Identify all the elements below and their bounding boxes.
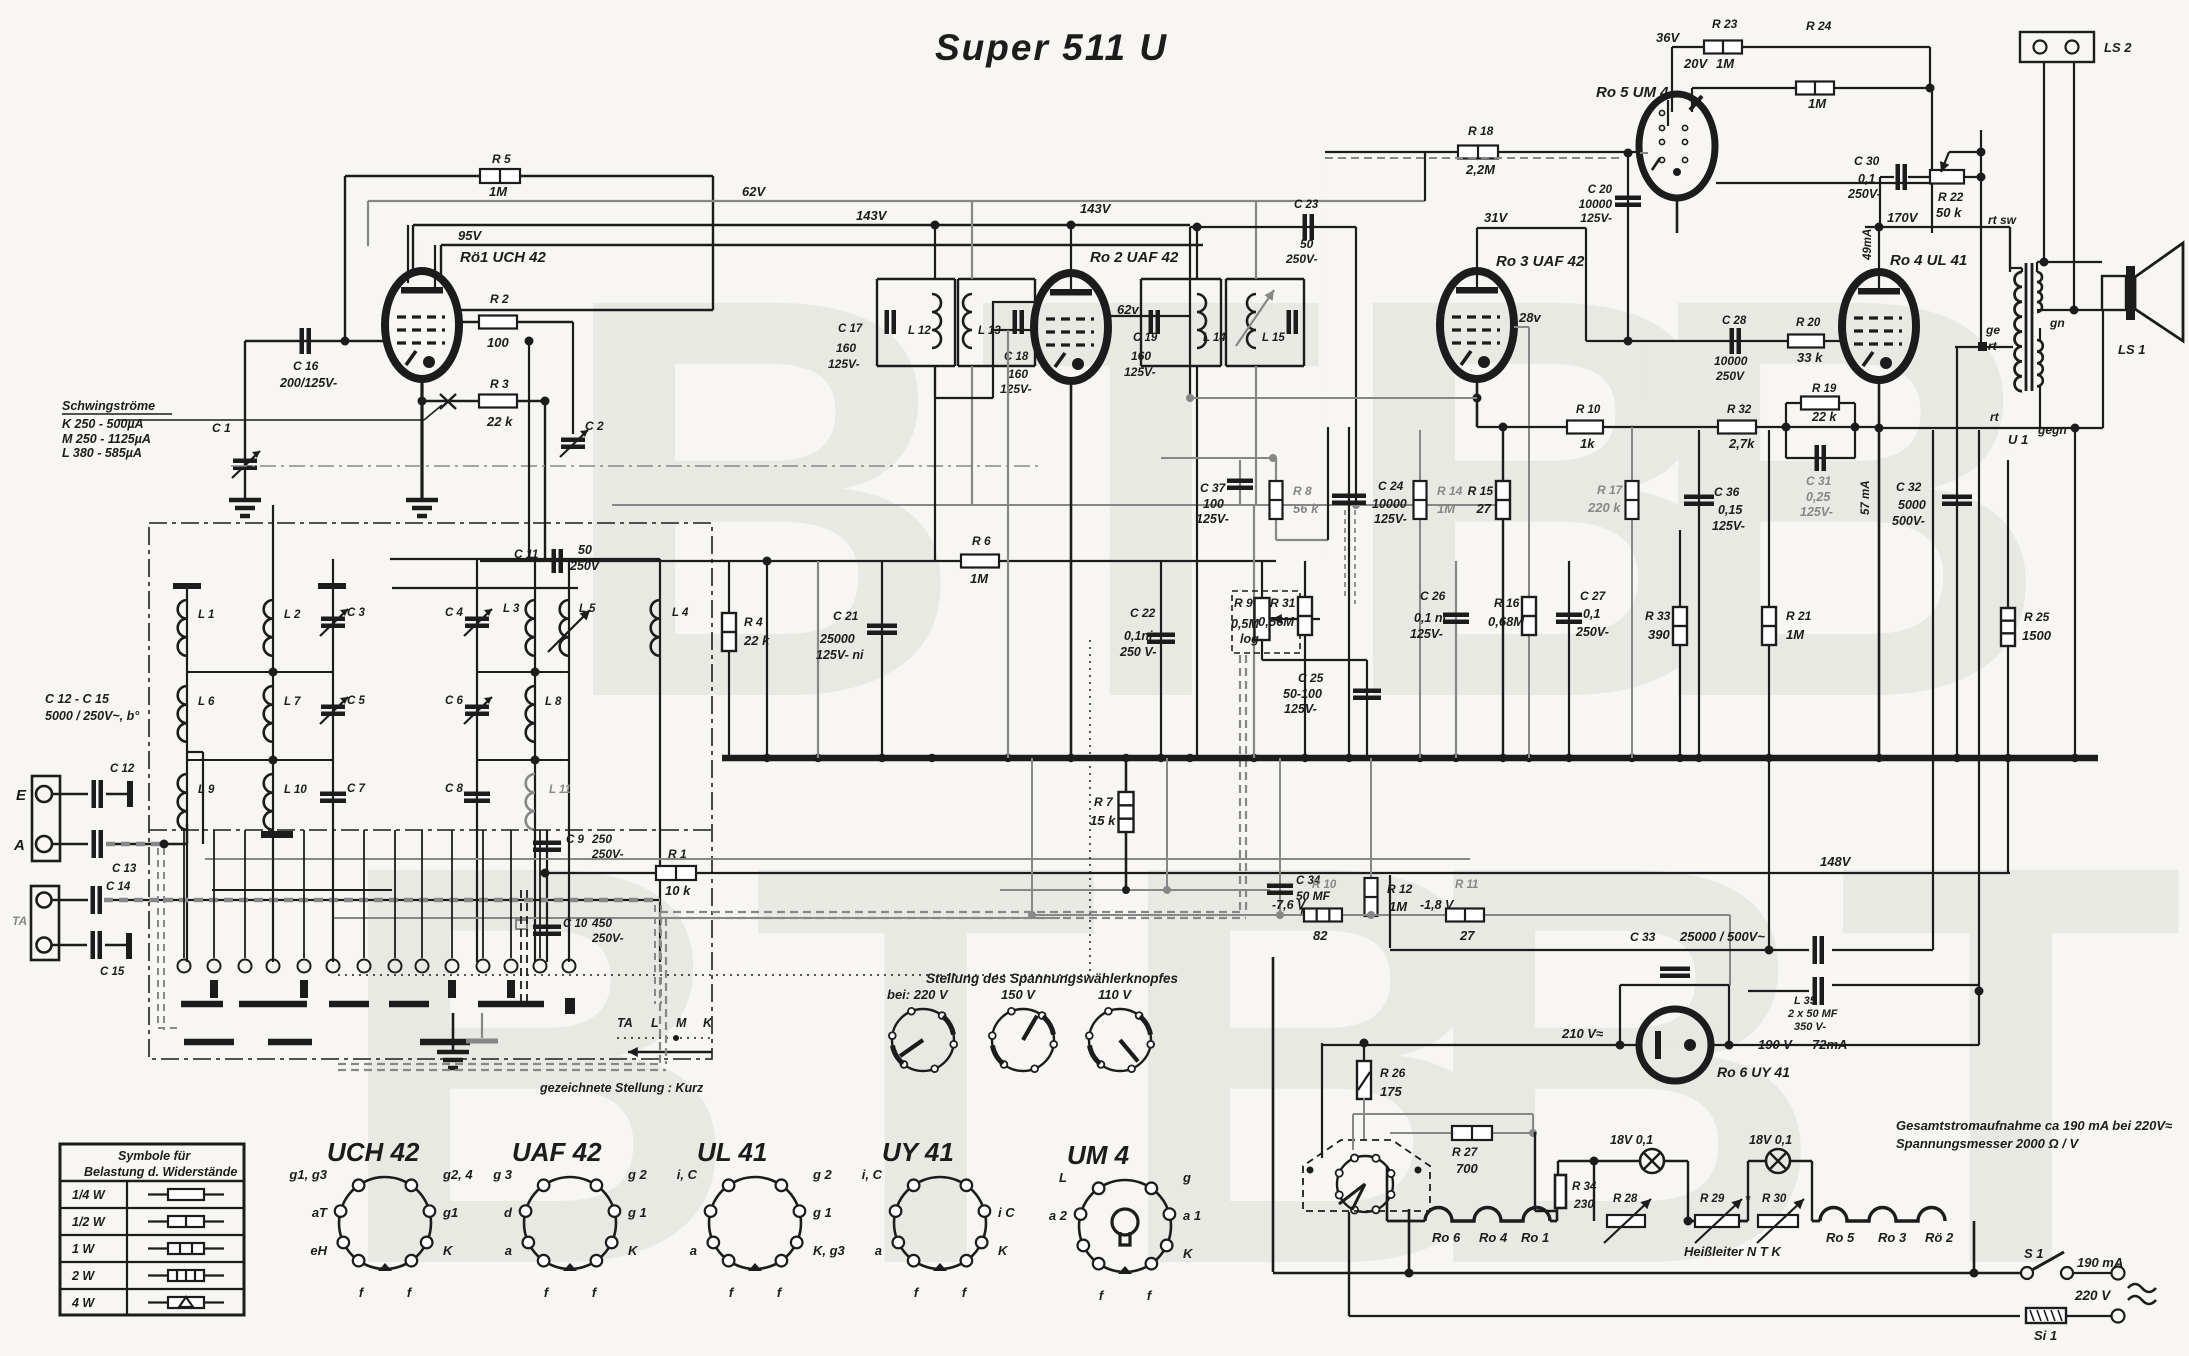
svg-text:Ro 3: Ro 3 bbox=[1878, 1230, 1907, 1245]
svg-text:R 15: R 15 bbox=[1468, 484, 1494, 498]
svg-text:2,7k: 2,7k bbox=[1728, 436, 1755, 451]
svg-text:10 k: 10 k bbox=[665, 883, 691, 898]
svg-text:18V 0,1: 18V 0,1 bbox=[1749, 1133, 1792, 1147]
svg-text:L 3: L 3 bbox=[503, 603, 520, 615]
svg-text:R 3: R 3 bbox=[490, 377, 509, 391]
svg-text:log: log bbox=[1240, 632, 1259, 646]
svg-text:10000: 10000 bbox=[1372, 497, 1407, 511]
svg-text:TA: TA bbox=[12, 914, 27, 928]
svg-text:Rö 2: Rö 2 bbox=[1925, 1230, 1954, 1245]
svg-text:125V-: 125V- bbox=[1000, 382, 1032, 396]
svg-text:L 10: L 10 bbox=[284, 784, 307, 796]
svg-text:K: K bbox=[998, 1243, 1009, 1258]
svg-text:R 28: R 28 bbox=[1613, 1193, 1638, 1205]
svg-text:5000: 5000 bbox=[1898, 498, 1926, 512]
svg-text:25000 / 500V~: 25000 / 500V~ bbox=[1679, 929, 1765, 944]
svg-text:C 12 - C 15: C 12 - C 15 bbox=[45, 692, 110, 706]
svg-text:82: 82 bbox=[1313, 928, 1328, 943]
svg-text:R 11: R 11 bbox=[1455, 879, 1478, 891]
svg-text:R 24: R 24 bbox=[1806, 19, 1832, 33]
svg-text:0,5M: 0,5M bbox=[1231, 617, 1259, 631]
svg-text:R 27: R 27 bbox=[1452, 1145, 1479, 1159]
svg-text:10000: 10000 bbox=[1579, 197, 1613, 211]
svg-text:Stellung des Spannungswähler: Stellung des Spannungswählerknopfes bbox=[926, 971, 1179, 986]
svg-text:50 k: 50 k bbox=[1936, 205, 1962, 220]
svg-text:Super 511 U: Super 511 U bbox=[935, 27, 1168, 68]
svg-text:160: 160 bbox=[836, 341, 856, 355]
svg-text:g 1: g 1 bbox=[627, 1205, 647, 1220]
svg-text:31V: 31V bbox=[1484, 210, 1508, 225]
svg-text:100: 100 bbox=[487, 335, 509, 350]
svg-text:R 23: R 23 bbox=[1712, 17, 1738, 31]
svg-text:125V-: 125V- bbox=[828, 357, 860, 371]
svg-text:C 14: C 14 bbox=[106, 881, 131, 893]
svg-text:UY 41: UY 41 bbox=[882, 1137, 954, 1167]
svg-text:125V-: 125V- bbox=[1800, 505, 1833, 519]
svg-text:i C: i C bbox=[998, 1205, 1015, 1220]
svg-text:UL 41: UL 41 bbox=[697, 1137, 767, 1167]
svg-text:125V-: 125V- bbox=[1374, 512, 1407, 526]
svg-text:L 7: L 7 bbox=[284, 696, 301, 708]
svg-text:Belastung d. Widerstände: Belastung d. Widerstände bbox=[84, 1165, 237, 1179]
svg-text:2 W: 2 W bbox=[71, 1269, 95, 1283]
svg-text:27: 27 bbox=[1476, 501, 1492, 516]
svg-text:R 29: R 29 bbox=[1700, 1193, 1725, 1205]
svg-text:C 36: C 36 bbox=[1714, 485, 1740, 499]
svg-text:125V-: 125V- bbox=[1712, 519, 1745, 533]
svg-text:E: E bbox=[16, 787, 27, 804]
svg-text:1M: 1M bbox=[970, 571, 989, 586]
svg-text:1M: 1M bbox=[1716, 56, 1735, 71]
svg-text:0,25: 0,25 bbox=[1806, 490, 1831, 504]
svg-text:C 22: C 22 bbox=[1130, 606, 1156, 620]
svg-text:143V: 143V bbox=[1080, 201, 1112, 216]
svg-text:0,1: 0,1 bbox=[1583, 607, 1600, 621]
svg-text:C 12: C 12 bbox=[110, 763, 135, 775]
svg-text:250V-: 250V- bbox=[1575, 625, 1609, 639]
svg-text:C 10: C 10 bbox=[563, 918, 588, 930]
svg-text:C 33: C 33 bbox=[1630, 930, 1656, 944]
svg-text:C 21: C 21 bbox=[833, 609, 859, 623]
svg-text:148V: 148V bbox=[1820, 854, 1852, 869]
svg-text:18V 0,1: 18V 0,1 bbox=[1610, 1133, 1653, 1147]
svg-text:gn: gn bbox=[2049, 316, 2065, 330]
svg-text:250: 250 bbox=[591, 832, 612, 846]
svg-text:rt: rt bbox=[1988, 339, 1998, 353]
svg-text:C 13: C 13 bbox=[112, 863, 137, 875]
svg-text:a: a bbox=[875, 1243, 882, 1258]
svg-text:0,15: 0,15 bbox=[1718, 503, 1743, 517]
svg-text:230: 230 bbox=[1573, 1197, 1594, 1211]
svg-text:C 5: C 5 bbox=[347, 695, 366, 707]
svg-text:L 1: L 1 bbox=[198, 609, 214, 621]
svg-text:125V-: 125V- bbox=[1196, 512, 1229, 526]
svg-text:50-100: 50-100 bbox=[1283, 687, 1322, 701]
svg-text:160: 160 bbox=[1008, 367, 1028, 381]
svg-text:UM 4: UM 4 bbox=[1067, 1140, 1130, 1170]
svg-text:g 3: g 3 bbox=[492, 1167, 513, 1182]
svg-text:LS 1: LS 1 bbox=[2118, 342, 2145, 357]
svg-text:R 6: R 6 bbox=[972, 534, 991, 548]
svg-text:4 W: 4 W bbox=[71, 1296, 95, 1310]
svg-text:20V: 20V bbox=[1683, 56, 1708, 71]
svg-text:R 4: R 4 bbox=[744, 615, 763, 629]
svg-text:C 23: C 23 bbox=[1294, 199, 1319, 211]
svg-text:125V-: 125V- bbox=[1284, 702, 1317, 716]
svg-text:Spannungsmesser 2000 Ω / V: Spannungsmesser 2000 Ω / V bbox=[1896, 1136, 2079, 1151]
svg-text:27: 27 bbox=[1459, 928, 1475, 943]
svg-text:Ro 6 UY 41: Ro 6 UY 41 bbox=[1717, 1064, 1790, 1080]
svg-text:C 28: C 28 bbox=[1722, 315, 1747, 327]
svg-text:g 2: g 2 bbox=[627, 1167, 648, 1182]
svg-text:R 14: R 14 bbox=[1437, 484, 1463, 498]
svg-text:R 26: R 26 bbox=[1380, 1066, 1406, 1080]
svg-text:R 10: R 10 bbox=[1576, 404, 1601, 416]
svg-text:C 27: C 27 bbox=[1580, 589, 1607, 603]
svg-text:C 6: C 6 bbox=[445, 695, 464, 707]
svg-text:gegn: gegn bbox=[2037, 423, 2067, 437]
svg-text:C 8: C 8 bbox=[445, 783, 464, 795]
svg-text:BTB: BTB bbox=[555, 179, 1756, 816]
svg-text:110 V: 110 V bbox=[1098, 987, 1132, 1002]
svg-text:R 30: R 30 bbox=[1762, 1193, 1787, 1205]
svg-text:M 250 - 1125µA: M 250 - 1125µA bbox=[62, 432, 151, 446]
svg-text:BT: BT bbox=[1415, 746, 2189, 1356]
svg-text:g 1: g 1 bbox=[812, 1205, 832, 1220]
svg-text:gezeichnete Stellung : Kurz: gezeichnete Stellung : Kurz bbox=[539, 1081, 704, 1095]
svg-text:190 V: 190 V bbox=[1758, 1037, 1793, 1052]
svg-text:L 4: L 4 bbox=[672, 607, 689, 619]
svg-text:72mA: 72mA bbox=[1812, 1037, 1847, 1052]
svg-text:bei: 220 V: bei: 220 V bbox=[887, 987, 949, 1002]
svg-text:UAF 42: UAF 42 bbox=[512, 1137, 602, 1167]
svg-text:C 20: C 20 bbox=[1588, 184, 1613, 196]
svg-text:450: 450 bbox=[591, 916, 612, 930]
svg-text:1M: 1M bbox=[1808, 96, 1827, 111]
svg-text:g: g bbox=[1182, 1170, 1191, 1185]
svg-text:49mA: 49mA bbox=[1862, 229, 1874, 261]
svg-text:350 V-: 350 V- bbox=[1794, 1021, 1826, 1033]
svg-text:150 V: 150 V bbox=[1001, 987, 1036, 1002]
svg-text:R 17: R 17 bbox=[1597, 483, 1624, 497]
svg-text:R 7: R 7 bbox=[1094, 795, 1114, 809]
svg-text:U 1: U 1 bbox=[2008, 432, 2028, 447]
svg-text:160: 160 bbox=[1131, 349, 1151, 363]
svg-text:L 35: L 35 bbox=[1794, 995, 1817, 1007]
svg-text:L: L bbox=[651, 1016, 659, 1030]
svg-text:125V- ni: 125V- ni bbox=[816, 648, 864, 662]
svg-text:1 W: 1 W bbox=[72, 1242, 95, 1256]
svg-text:Heißleiter N T K: Heißleiter N T K bbox=[1684, 1244, 1782, 1259]
svg-text:R 19: R 19 bbox=[1812, 383, 1837, 395]
svg-text:1/2 W: 1/2 W bbox=[72, 1215, 106, 1229]
svg-text:50: 50 bbox=[1300, 237, 1314, 251]
svg-text:R 21: R 21 bbox=[1786, 609, 1812, 623]
svg-text:22 k: 22 k bbox=[486, 414, 513, 429]
svg-text:LS 2: LS 2 bbox=[2104, 40, 2132, 55]
svg-text:1M: 1M bbox=[1437, 501, 1456, 516]
svg-text:a: a bbox=[505, 1243, 512, 1258]
svg-text:22 k: 22 k bbox=[1811, 410, 1837, 424]
svg-text:C 16: C 16 bbox=[293, 359, 319, 373]
svg-text:Rö1 UCH 42: Rö1 UCH 42 bbox=[460, 249, 547, 266]
svg-text:2 x 50 MF: 2 x 50 MF bbox=[1787, 1008, 1838, 1020]
svg-text:g 2: g 2 bbox=[812, 1167, 833, 1182]
svg-text:S 1: S 1 bbox=[2024, 1246, 2044, 1261]
svg-text:rt: rt bbox=[1990, 410, 2000, 424]
svg-text:aT: aT bbox=[312, 1205, 328, 1220]
svg-text:L 380 - 585µA: L 380 - 585µA bbox=[62, 446, 142, 460]
svg-text:C 25: C 25 bbox=[1298, 671, 1324, 685]
svg-text:0,68M: 0,68M bbox=[1488, 614, 1525, 629]
svg-text:d: d bbox=[504, 1205, 513, 1220]
svg-text:Ro 1: Ro 1 bbox=[1521, 1230, 1549, 1245]
svg-text:C 31: C 31 bbox=[1806, 474, 1832, 488]
svg-text:UCH 42: UCH 42 bbox=[327, 1137, 420, 1167]
svg-text:R 2: R 2 bbox=[490, 292, 509, 306]
svg-text:L 11: L 11 bbox=[549, 784, 571, 796]
svg-text:5000 / 250V~, b°: 5000 / 250V~, b° bbox=[45, 709, 140, 723]
svg-text:C 26: C 26 bbox=[1420, 589, 1446, 603]
svg-text:190 mA: 190 mA bbox=[2077, 1255, 2123, 1270]
svg-text:R 22: R 22 bbox=[1938, 190, 1964, 204]
svg-text:0,1: 0,1 bbox=[1858, 172, 1875, 186]
svg-text:210 V≈: 210 V≈ bbox=[1561, 1026, 1604, 1041]
svg-text:0,56M: 0,56M bbox=[1258, 614, 1295, 629]
svg-text:0,1 ni: 0,1 ni bbox=[1414, 611, 1446, 625]
svg-text:R 5: R 5 bbox=[492, 152, 511, 166]
svg-text:0,1ni: 0,1ni bbox=[1124, 629, 1153, 643]
svg-text:Schwingströme: Schwingströme bbox=[62, 399, 155, 413]
svg-text:143V: 143V bbox=[856, 208, 888, 223]
svg-text:g1, g3: g1, g3 bbox=[288, 1167, 327, 1182]
svg-text:125V-: 125V- bbox=[1580, 211, 1612, 225]
svg-text:C 19: C 19 bbox=[1133, 332, 1158, 344]
svg-text:g1: g1 bbox=[442, 1205, 458, 1220]
svg-text:Ro 6: Ro 6 bbox=[1432, 1230, 1461, 1245]
svg-text:57 mA: 57 mA bbox=[1860, 480, 1872, 515]
svg-text:1k: 1k bbox=[1580, 436, 1595, 451]
svg-text:250V: 250V bbox=[1715, 369, 1745, 383]
svg-text:390: 390 bbox=[1648, 627, 1670, 642]
svg-text:L 15: L 15 bbox=[1262, 332, 1285, 344]
svg-text:L 12: L 12 bbox=[908, 325, 931, 337]
svg-text:1500: 1500 bbox=[2022, 628, 2052, 643]
svg-text:C 7: C 7 bbox=[347, 783, 366, 795]
svg-text:i, C: i, C bbox=[677, 1167, 698, 1182]
svg-text:R 9: R 9 bbox=[1234, 596, 1253, 610]
svg-text:200/125V-: 200/125V- bbox=[279, 376, 337, 390]
svg-text:A: A bbox=[13, 837, 25, 854]
svg-text:a 2: a 2 bbox=[1049, 1208, 1068, 1223]
svg-text:C 24: C 24 bbox=[1378, 479, 1404, 493]
svg-text:R 8: R 8 bbox=[1293, 484, 1312, 498]
svg-text:1M: 1M bbox=[1389, 899, 1408, 914]
svg-text:33 k: 33 k bbox=[1797, 350, 1823, 365]
svg-text:K, g3: K, g3 bbox=[813, 1243, 846, 1258]
svg-text:rt sw: rt sw bbox=[1988, 213, 2017, 227]
svg-text:1M: 1M bbox=[489, 184, 508, 199]
svg-text:L 8: L 8 bbox=[545, 696, 562, 708]
svg-text:170V: 170V bbox=[1887, 210, 1919, 225]
svg-text:220 k: 220 k bbox=[1587, 500, 1621, 515]
svg-text:100: 100 bbox=[1203, 497, 1224, 511]
svg-text:175: 175 bbox=[1380, 1084, 1402, 1099]
svg-text:2,2M: 2,2M bbox=[1465, 162, 1496, 177]
svg-text:L 6: L 6 bbox=[198, 696, 215, 708]
svg-text:C 4: C 4 bbox=[445, 607, 464, 619]
svg-text:Symbole für: Symbole für bbox=[118, 1149, 191, 1163]
svg-text:Ro 3 UAF 42: Ro 3 UAF 42 bbox=[1496, 253, 1585, 270]
svg-text:K: K bbox=[703, 1016, 713, 1030]
svg-text:L 9: L 9 bbox=[198, 784, 215, 796]
svg-text:95V: 95V bbox=[458, 228, 482, 243]
svg-text:28v: 28v bbox=[1518, 310, 1541, 325]
svg-text:C 2: C 2 bbox=[585, 419, 604, 433]
svg-text:-1,8 V: -1,8 V bbox=[1420, 898, 1455, 912]
svg-text:250V-: 250V- bbox=[591, 931, 624, 945]
svg-text:125V-: 125V- bbox=[1124, 365, 1156, 379]
svg-text:15 k: 15 k bbox=[1090, 813, 1116, 828]
svg-text:Ro 2 UAF 42: Ro 2 UAF 42 bbox=[1090, 249, 1179, 266]
svg-text:C 32: C 32 bbox=[1896, 480, 1922, 494]
svg-text:a: a bbox=[690, 1243, 697, 1258]
svg-text:g2, 4: g2, 4 bbox=[442, 1167, 473, 1182]
svg-text:R 16: R 16 bbox=[1494, 596, 1520, 610]
svg-text:R 18: R 18 bbox=[1468, 124, 1494, 138]
svg-text:K 250 - 500µA: K 250 - 500µA bbox=[62, 417, 144, 431]
svg-text:R 33: R 33 bbox=[1645, 609, 1671, 623]
svg-text:700: 700 bbox=[1456, 1161, 1478, 1176]
svg-text:250 V-: 250 V- bbox=[1119, 645, 1156, 659]
svg-text:-7,6 V: -7,6 V bbox=[1272, 898, 1307, 912]
svg-text:36V: 36V bbox=[1656, 30, 1680, 45]
svg-text:C 37: C 37 bbox=[1200, 481, 1227, 495]
svg-text:K: K bbox=[1183, 1246, 1194, 1261]
svg-text:a 1: a 1 bbox=[1183, 1208, 1201, 1223]
svg-text:Ro 5: Ro 5 bbox=[1826, 1230, 1855, 1245]
svg-text:K: K bbox=[443, 1243, 454, 1258]
svg-text:i, C: i, C bbox=[862, 1167, 883, 1182]
svg-text:1/4 W: 1/4 W bbox=[72, 1188, 106, 1202]
svg-text:Si 1: Si 1 bbox=[2034, 1328, 2057, 1343]
svg-text:Ro 4 UL 41: Ro 4 UL 41 bbox=[1890, 252, 1967, 269]
svg-text:125V-: 125V- bbox=[1410, 627, 1443, 641]
svg-text:R 31: R 31 bbox=[1270, 596, 1296, 610]
svg-text:R 32: R 32 bbox=[1727, 404, 1752, 416]
svg-text:500V-: 500V- bbox=[1892, 514, 1925, 528]
svg-text:ge: ge bbox=[1985, 323, 2000, 337]
svg-text:R 25: R 25 bbox=[2024, 610, 2050, 624]
svg-text:25000: 25000 bbox=[819, 632, 855, 646]
svg-text:250V-: 250V- bbox=[1285, 252, 1318, 266]
svg-text:1M: 1M bbox=[1786, 627, 1805, 642]
svg-text:62V: 62V bbox=[742, 184, 766, 199]
svg-text:L 2: L 2 bbox=[284, 609, 301, 621]
svg-text:62v: 62v bbox=[1117, 302, 1139, 317]
svg-text:Ro 4: Ro 4 bbox=[1479, 1230, 1508, 1245]
svg-text:10000: 10000 bbox=[1714, 354, 1748, 368]
svg-text:R 10: R 10 bbox=[1312, 879, 1337, 891]
svg-text:L 14: L 14 bbox=[1203, 332, 1226, 344]
svg-text:C 17: C 17 bbox=[838, 323, 863, 335]
svg-text:C 1: C 1 bbox=[212, 421, 231, 435]
svg-text:K: K bbox=[628, 1243, 639, 1258]
svg-text:220 V: 220 V bbox=[2074, 1288, 2111, 1303]
svg-text:250V-: 250V- bbox=[1847, 187, 1881, 201]
svg-text:eH: eH bbox=[310, 1243, 327, 1258]
svg-text:C 15: C 15 bbox=[100, 966, 125, 978]
svg-text:L 5: L 5 bbox=[579, 603, 596, 615]
svg-text:C 3: C 3 bbox=[347, 607, 366, 619]
svg-text:M: M bbox=[676, 1016, 687, 1030]
svg-text:L: L bbox=[1059, 1170, 1067, 1185]
svg-text:56 k: 56 k bbox=[1293, 501, 1319, 516]
svg-text:Gesamtstromaufnahme ca 190 mA: Gesamtstromaufnahme ca 190 mA bei 220V≈ bbox=[1896, 1118, 2173, 1133]
svg-text:TA: TA bbox=[617, 1016, 633, 1030]
svg-text:50: 50 bbox=[578, 543, 592, 557]
svg-text:R 20: R 20 bbox=[1796, 317, 1821, 329]
svg-text:C 30: C 30 bbox=[1854, 154, 1880, 168]
